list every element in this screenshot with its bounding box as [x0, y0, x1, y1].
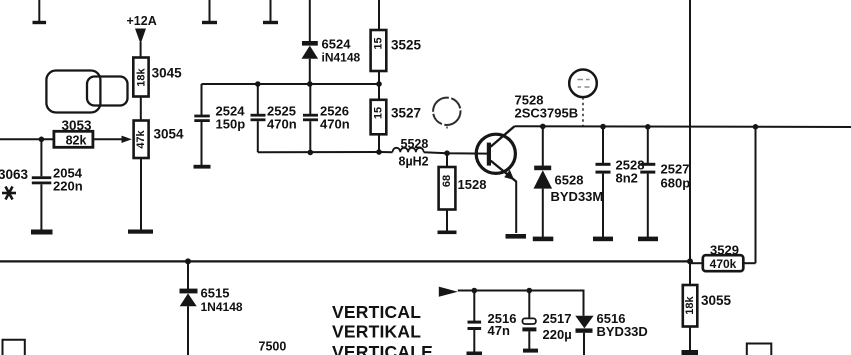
- resistor 3527: [371, 84, 421, 152]
- wire emitter to ground: [515, 181, 517, 233]
- svg-text:470n: 470n: [320, 117, 350, 132]
- ground (under 3055): [682, 350, 699, 355]
- wire vertical x=690 from top: [689, 0, 691, 261]
- supply +12A arrow: [127, 14, 157, 58]
- svg-text:8µH2: 8µH2: [399, 155, 429, 169]
- diode 6515: [180, 261, 243, 355]
- node (bottom rail / 3529 / 3055): [687, 258, 693, 264]
- node (2526 bottom): [308, 150, 314, 156]
- ground (under 2517): [523, 349, 538, 353]
- node (junction on left wire): [39, 137, 45, 143]
- capacitor 2525: [251, 84, 297, 152]
- resistor 1528: [439, 153, 487, 231]
- svg-text:6528: 6528: [555, 173, 584, 188]
- box 7501 (cut off bottom right): [747, 344, 772, 355]
- svg-text:3045: 3045: [152, 66, 183, 81]
- svg-text:150p: 150p: [216, 117, 246, 132]
- svg-text:470n: 470n: [267, 117, 297, 132]
- svg-text:8n2: 8n2: [616, 171, 638, 186]
- svg-text:1528: 1528: [458, 177, 487, 192]
- capacitor 2054: [32, 139, 83, 230]
- node (2516 top): [472, 288, 478, 294]
- ground (under 2528): [593, 237, 613, 242]
- wire inductor to base: [424, 152, 487, 153]
- wire 3054 to ground: [140, 158, 142, 230]
- annotation circle near 3527: [433, 98, 460, 130]
- resistor 3525: [371, 0, 422, 84]
- node (2525 top): [255, 81, 261, 87]
- ground (emitter): [506, 234, 527, 239]
- node (2528 top): [600, 124, 606, 130]
- annotation loop (small hand-drawn rounded box): [87, 77, 128, 106]
- annotation circle above collector rail: [569, 70, 597, 126]
- wire vertical-drive y=290.5: [458, 291, 584, 316]
- capacitor 2517 (electrolytic): [522, 291, 571, 350]
- svg-text:220n: 220n: [53, 179, 83, 194]
- capacitor 2526: [303, 84, 350, 152]
- node (2526 top / diode 6524): [307, 81, 313, 87]
- svg-text:3525: 3525: [391, 38, 422, 53]
- resistor 3529: [690, 127, 756, 271]
- diode 6516: [575, 311, 647, 355]
- svg-text:5528: 5528: [401, 137, 429, 151]
- node (3527 bottom): [376, 149, 382, 155]
- annotation loop (large hand-drawn rounded box): [46, 71, 100, 113]
- svg-text:BYD33D: BYD33D: [597, 324, 648, 339]
- terminal top (x=209): [202, 0, 217, 24]
- wire upper bus y=84: [202, 83, 380, 85]
- svg-text:15: 15: [372, 37, 384, 49]
- svg-text:3054: 3054: [154, 127, 185, 142]
- component 3063 (off-page, text + asterisk): [0, 167, 29, 200]
- svg-text:18k: 18k: [684, 295, 696, 314]
- diode 6524: [302, 0, 361, 84]
- svg-text:6524: 6524: [322, 37, 352, 52]
- wire mid bus y=152: [258, 151, 393, 153]
- svg-text:6515: 6515: [201, 286, 230, 301]
- transistor Q 7528: [476, 93, 578, 182]
- svg-text:2527: 2527: [661, 162, 690, 177]
- svg-text:2517: 2517: [543, 311, 572, 326]
- ground (under 2516): [467, 352, 483, 355]
- capacitor 2524: [194, 84, 245, 165]
- svg-text:3055: 3055: [701, 293, 732, 308]
- svg-text:18k: 18k: [136, 67, 148, 86]
- svg-text:15: 15: [372, 107, 384, 119]
- svg-text:7500: 7500: [259, 340, 287, 354]
- svg-text:iN4148: iN4148: [322, 51, 361, 65]
- ground (under 2527): [638, 237, 658, 242]
- node (diode 6528 top): [540, 124, 546, 130]
- node (3525/3527 junction): [376, 81, 382, 87]
- svg-text:47n: 47n: [488, 323, 510, 338]
- svg-text:3063: 3063: [0, 167, 29, 182]
- svg-text:470k: 470k: [710, 257, 737, 271]
- svg-text:VERTICAL: VERTICAL: [332, 302, 421, 322]
- inductor 5528: [393, 137, 429, 169]
- svg-text:82k: 82k: [66, 134, 87, 148]
- resistor 3053: [54, 118, 93, 148]
- svg-text:1N4148: 1N4148: [201, 300, 243, 314]
- ground (under 2054): [31, 230, 53, 235]
- svg-text:VERTIKAL: VERTIKAL: [332, 321, 421, 341]
- ground (under 1528): [438, 231, 457, 235]
- svg-text:47k: 47k: [135, 129, 147, 148]
- capacitor 2527: [640, 127, 690, 237]
- wire collector rail y=126: [515, 125, 851, 128]
- capacitor 2516: [468, 291, 517, 353]
- svg-text:3527: 3527: [391, 106, 421, 121]
- ground (under 2524): [194, 165, 211, 169]
- svg-text:68: 68: [441, 175, 453, 187]
- wire 3053 to arrow: [93, 138, 123, 140]
- svg-text:2SC3795B: 2SC3795B: [515, 106, 579, 121]
- arrowhead into 3054: [122, 136, 132, 143]
- svg-text:BYD33M: BYD33M: [551, 189, 604, 204]
- resistor 3054: [134, 121, 184, 159]
- svg-text:680p: 680p: [661, 176, 691, 191]
- wire 3045 to 3054: [140, 97, 142, 121]
- wire bottom rail y=261.4: [0, 260, 690, 262]
- ground (under 6528): [533, 237, 554, 242]
- terminal top-left: [33, 0, 47, 24]
- node (3529 top at collector rail): [753, 124, 759, 130]
- wire left rail into 3053: [0, 138, 54, 140]
- node (2527 top): [645, 124, 651, 130]
- diode 6528: [534, 126, 604, 237]
- resistor 3055: [683, 261, 732, 350]
- input arrow (vertical drive): [439, 287, 458, 297]
- node (1528 top): [444, 150, 450, 156]
- node (2517 top): [527, 288, 533, 294]
- box (cut off bottom left): [3, 340, 25, 355]
- terminal top (x=270): [263, 0, 278, 24]
- svg-text:VERTICALE: VERTICALE: [332, 342, 433, 355]
- resistor 3045: [133, 58, 182, 97]
- svg-text:+12A: +12A: [127, 14, 157, 28]
- ground (under 3054): [128, 230, 153, 234]
- capacitor 2528: [596, 127, 645, 237]
- node (diode 6515 top): [185, 258, 191, 264]
- svg-text:220µ: 220µ: [543, 327, 572, 342]
